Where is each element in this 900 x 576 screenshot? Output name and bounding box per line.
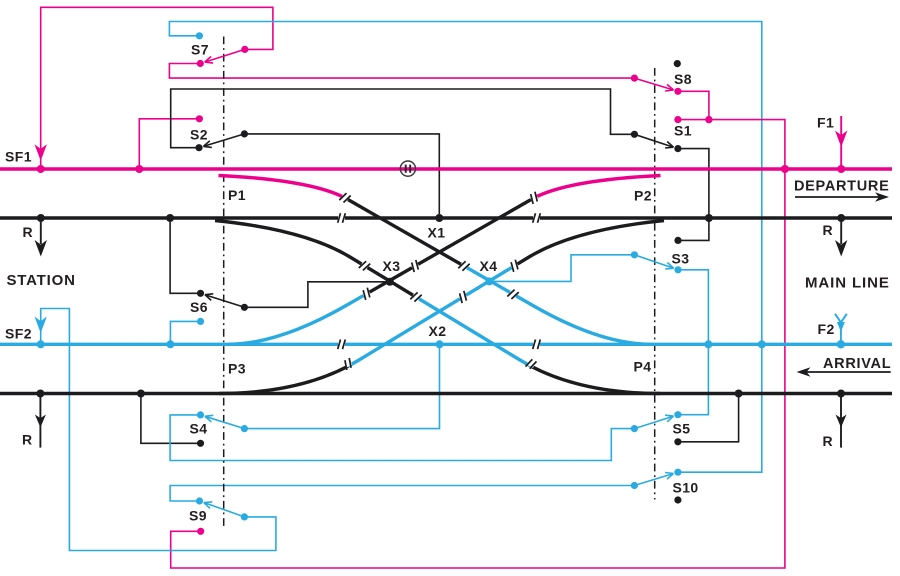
svg-text:S10: S10 [673, 480, 699, 496]
node: dot on main line at X1 axis [435, 214, 443, 222]
svg-text:STATION: STATION [7, 272, 76, 289]
axis: point P2/P4 dash-dot line [654, 68, 656, 500]
signal R bottom-left [36, 390, 44, 398]
switch S4 arm [205, 416, 245, 428]
switch S5 arm [634, 416, 673, 429]
break curve A above X4 [461, 264, 467, 268]
wire: cyan S3 contact to SF2 and S5 contact [678, 270, 709, 415]
node X3 junction dot [386, 278, 394, 286]
wire: black S2 pivot down to main line [244, 134, 439, 218]
wire: black S4 alt contact to lower main [141, 394, 201, 444]
svg-text:S8: S8 [674, 71, 692, 87]
signal R bottom-right [837, 390, 845, 398]
svg-text:S2: S2 [190, 127, 208, 143]
wire: cyan S6 alt contact to SF2 [170, 321, 200, 344]
track upper main line [0, 216, 892, 219]
svg-text:P2: P2 [634, 188, 652, 204]
node: dot on SF1 at S2 branch [135, 165, 143, 173]
track lower main line [0, 392, 892, 395]
svg-text:R: R [823, 222, 833, 238]
track crossover curve B magenta segment at P2 [532, 176, 661, 200]
node: S5 alt contact black dot [674, 438, 681, 445]
switch S7 arm [205, 49, 245, 62]
wire: magenta S2 alt contact to SF1 [139, 119, 199, 169]
svg-text:S6: S6 [190, 299, 208, 315]
track crossover curve D cyan segment through X4 and X2 across SF2 [348, 266, 515, 366]
svg-text:S1: S1 [674, 123, 692, 139]
svg-text:P4: P4 [634, 359, 652, 375]
svg-text:SF2: SF2 [5, 326, 32, 342]
node: dot on SF2 at S6 alt wire [166, 340, 174, 348]
svg-text:S5: S5 [673, 421, 691, 437]
insulated joint symbol on SF1 [400, 161, 415, 176]
switch S3 arm [634, 255, 673, 268]
wire: cyan S9 contact to S10 pivot [170, 486, 634, 502]
track SF2 arrival line [0, 343, 892, 346]
track crossover curve A black segment through X1 [347, 199, 464, 266]
wire: cyan S4 contact to S5 pivot [170, 415, 634, 461]
wire: black S1 contact down to main and S3 alt contact [678, 149, 709, 241]
svg-text:DEPARTURE: DEPARTURE [794, 179, 889, 195]
break curve C below X3 [413, 295, 419, 299]
signal SF2 arrowhead [35, 317, 47, 334]
switch S9 arm [204, 503, 245, 517]
node: S4 alt contact black dot [197, 440, 204, 447]
wire: magenta S8 contact to F1 bus [678, 91, 709, 119]
switch S2 arm [203, 134, 244, 147]
svg-text:R: R [23, 224, 33, 240]
track crossover curve D black segment from main at P2 [515, 221, 665, 266]
break curve B above X3 [412, 264, 418, 268]
signal R top-left [37, 214, 45, 222]
track crossover curve D black segment into lower main at P3 [219, 366, 348, 393]
break on upper main right [533, 216, 540, 221]
switch S1 arm [634, 134, 673, 147]
wire: black S6 pivot to crossing X3 [244, 282, 389, 308]
node: F1 dot on SF1 [837, 165, 845, 173]
signal SF1 arrowhead [35, 144, 47, 161]
wire: black S5 alt contact to lower main [678, 394, 739, 442]
node: dot on SF2 at S3 wire [704, 340, 712, 348]
node: dot on lower main at S4 alt wire [137, 390, 145, 398]
wire: cyan loop S7 alt contact to S10 contact [169, 22, 761, 473]
svg-text:S4: S4 [190, 421, 208, 437]
svg-text:X1: X1 [428, 225, 446, 241]
svg-text:X2: X2 [429, 323, 447, 339]
svg-text:S9: S9 [189, 508, 207, 524]
switch S6 arm [205, 295, 245, 308]
svg-text:F2: F2 [818, 321, 835, 337]
svg-text:X4: X4 [480, 258, 498, 274]
break curve D above X4 [512, 264, 518, 268]
track crossover curve B cyan segment into SF2 at P3 side [228, 294, 367, 345]
track crossover curve A magenta segment at P1 [219, 176, 348, 200]
wire: black S6 contact up to main line [170, 218, 200, 293]
node: SF1 signal junction dot [37, 165, 45, 173]
wire: cyan S10 contact up right loop to SF2 [758, 340, 766, 348]
node: S3 alt contact black dot [674, 237, 681, 244]
node: S8 alt contact black dot [674, 60, 681, 67]
break curve C above X3 [362, 264, 368, 268]
node: S1 alt contact magenta dot [674, 116, 681, 123]
node X4 junction dot [485, 277, 493, 285]
node: SF2 signal dot [37, 340, 45, 348]
node: dot on SF1 at magenta loop [781, 165, 789, 173]
wire: cyan S9 pivot loop to SF2 signal [41, 309, 276, 551]
break curve B near P2 [531, 196, 537, 200]
axis: point P1/P3 dash-dot line [223, 37, 225, 527]
break curve D below X4 [460, 295, 466, 299]
signal F1 line [840, 116, 842, 169]
break curve A near P1 [342, 196, 348, 200]
wire: magenta S7 contact to S8 pivot [169, 64, 634, 79]
track crossover curve C black segment from main at P1 through X3 [215, 221, 416, 298]
svg-text:R: R [823, 433, 833, 449]
svg-text:P3: P3 [228, 361, 246, 377]
break on SF2 left [338, 342, 345, 347]
wire: cyan S3 pivot to crossing X4 [489, 255, 634, 282]
svg-text:P1: P1 [228, 187, 246, 203]
wire: magenta loop from S7 pivot to SF1 signal [41, 7, 273, 169]
break curve B below X3 [364, 292, 370, 296]
svg-text:ARRIVAL: ARRIVAL [823, 356, 891, 372]
node: dot on lower main at S5 alt wire [735, 390, 743, 398]
signal F1 arrowhead [835, 131, 847, 148]
svg-text:R: R [22, 432, 32, 448]
wire: magenta F1 bus from S1 alt contact to right loop [171, 120, 785, 568]
svg-text:MAIN LINE: MAIN LINE [805, 275, 890, 292]
svg-text:S7: S7 [191, 42, 209, 58]
switch S8 arm [634, 78, 673, 90]
node: S2 alt contact magenta dot [196, 115, 203, 122]
signal F2 symbol [835, 314, 841, 323]
break curve C near P4 [528, 362, 534, 365]
track crossover curve A cyan segment through X4 into SF2 at P4 [464, 266, 651, 344]
signal R top-right [837, 214, 845, 222]
node: S10 alt contact black dot [674, 496, 681, 503]
break curve D near P3 [345, 362, 351, 365]
svg-text:SF1: SF1 [5, 149, 32, 165]
svg-text:F1: F1 [817, 115, 834, 131]
node: F2 dot on SF2 [837, 340, 845, 348]
break on SF2 right [533, 342, 540, 347]
node: dot on main line at S6 wire [166, 214, 174, 222]
break curve A below X4 [510, 293, 516, 297]
switch S10 arm [634, 474, 673, 486]
arrow departure [795, 196, 882, 198]
svg-text:X3: X3 [383, 258, 401, 274]
track crossover curve B black segment through X1 and X3 [367, 199, 533, 294]
arrow arrival [804, 371, 891, 373]
node: dot on SF2 at X2 axis [436, 340, 444, 348]
node: S9 alt contact magenta dot [197, 528, 204, 535]
track crossover curve C black segment into lower main at P4 [531, 366, 660, 393]
track SF1 departure line [0, 167, 892, 170]
svg-text:S3: S3 [672, 251, 690, 267]
node: S6 alt contact cyan dot [197, 318, 204, 325]
track crossover curve C cyan segment through X2 across SF2 [416, 297, 531, 366]
node: junction dot S8 wire on F1 bus [705, 116, 712, 123]
wire: black S2 contact to S1 pivot [171, 89, 635, 148]
node: S7 alt contact cyan dot [196, 32, 203, 39]
node: dot on main line at S1 wire [705, 214, 713, 222]
break on upper main left [338, 216, 345, 221]
wire: cyan S4 pivot up to SF2 at X2 axis [244, 344, 439, 428]
